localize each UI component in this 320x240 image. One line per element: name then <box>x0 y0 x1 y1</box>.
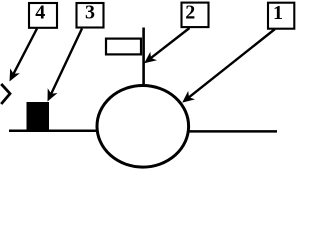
svg-text:4: 4 <box>35 2 45 24</box>
wire: right reference line <box>188 130 277 133</box>
callout box 3 <box>77 3 104 28</box>
callout box 2 <box>182 3 209 28</box>
arrow from box 3 to black rectangle <box>50 29 82 97</box>
wire: left reference line <box>9 130 98 133</box>
arrow from box 1 to circle <box>187 29 275 99</box>
weld element: filled black rectangle on line <box>27 102 50 131</box>
arrow from box 2 to flag pole <box>149 28 190 60</box>
callout box 4 <box>29 3 57 28</box>
callout box 1 <box>268 3 294 29</box>
arrow from box 4 to chevron <box>12 29 37 77</box>
svg-text:3: 3 <box>85 2 95 24</box>
weld circle symbol <box>97 86 189 168</box>
wire: flag pole vertical line <box>142 28 145 87</box>
field weld flag rectangle <box>106 39 141 55</box>
svg-text:1: 1 <box>273 2 283 24</box>
svg-text:2: 2 <box>185 2 195 24</box>
chevron arrow symbol at left <box>1 84 10 104</box>
